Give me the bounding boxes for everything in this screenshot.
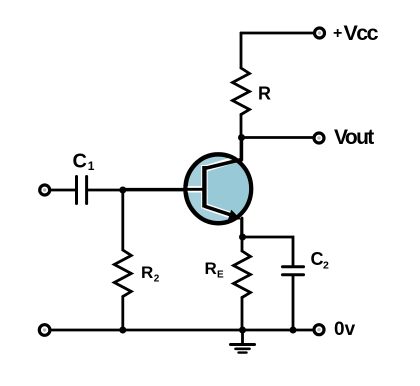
svg-text:2: 2 <box>323 259 329 271</box>
svg-text:R: R <box>258 84 271 104</box>
svg-text:+: + <box>333 25 342 42</box>
svg-text:C: C <box>311 249 324 269</box>
svg-text:Vcc: Vcc <box>344 21 379 45</box>
svg-text:R: R <box>141 263 153 282</box>
svg-text:E: E <box>217 270 224 281</box>
svg-text:R: R <box>205 259 217 278</box>
svg-text:0v: 0v <box>334 319 356 340</box>
svg-text:Vout: Vout <box>334 126 374 149</box>
svg-text:2: 2 <box>154 274 160 285</box>
svg-text:1: 1 <box>88 159 95 173</box>
svg-text:C: C <box>73 150 87 172</box>
